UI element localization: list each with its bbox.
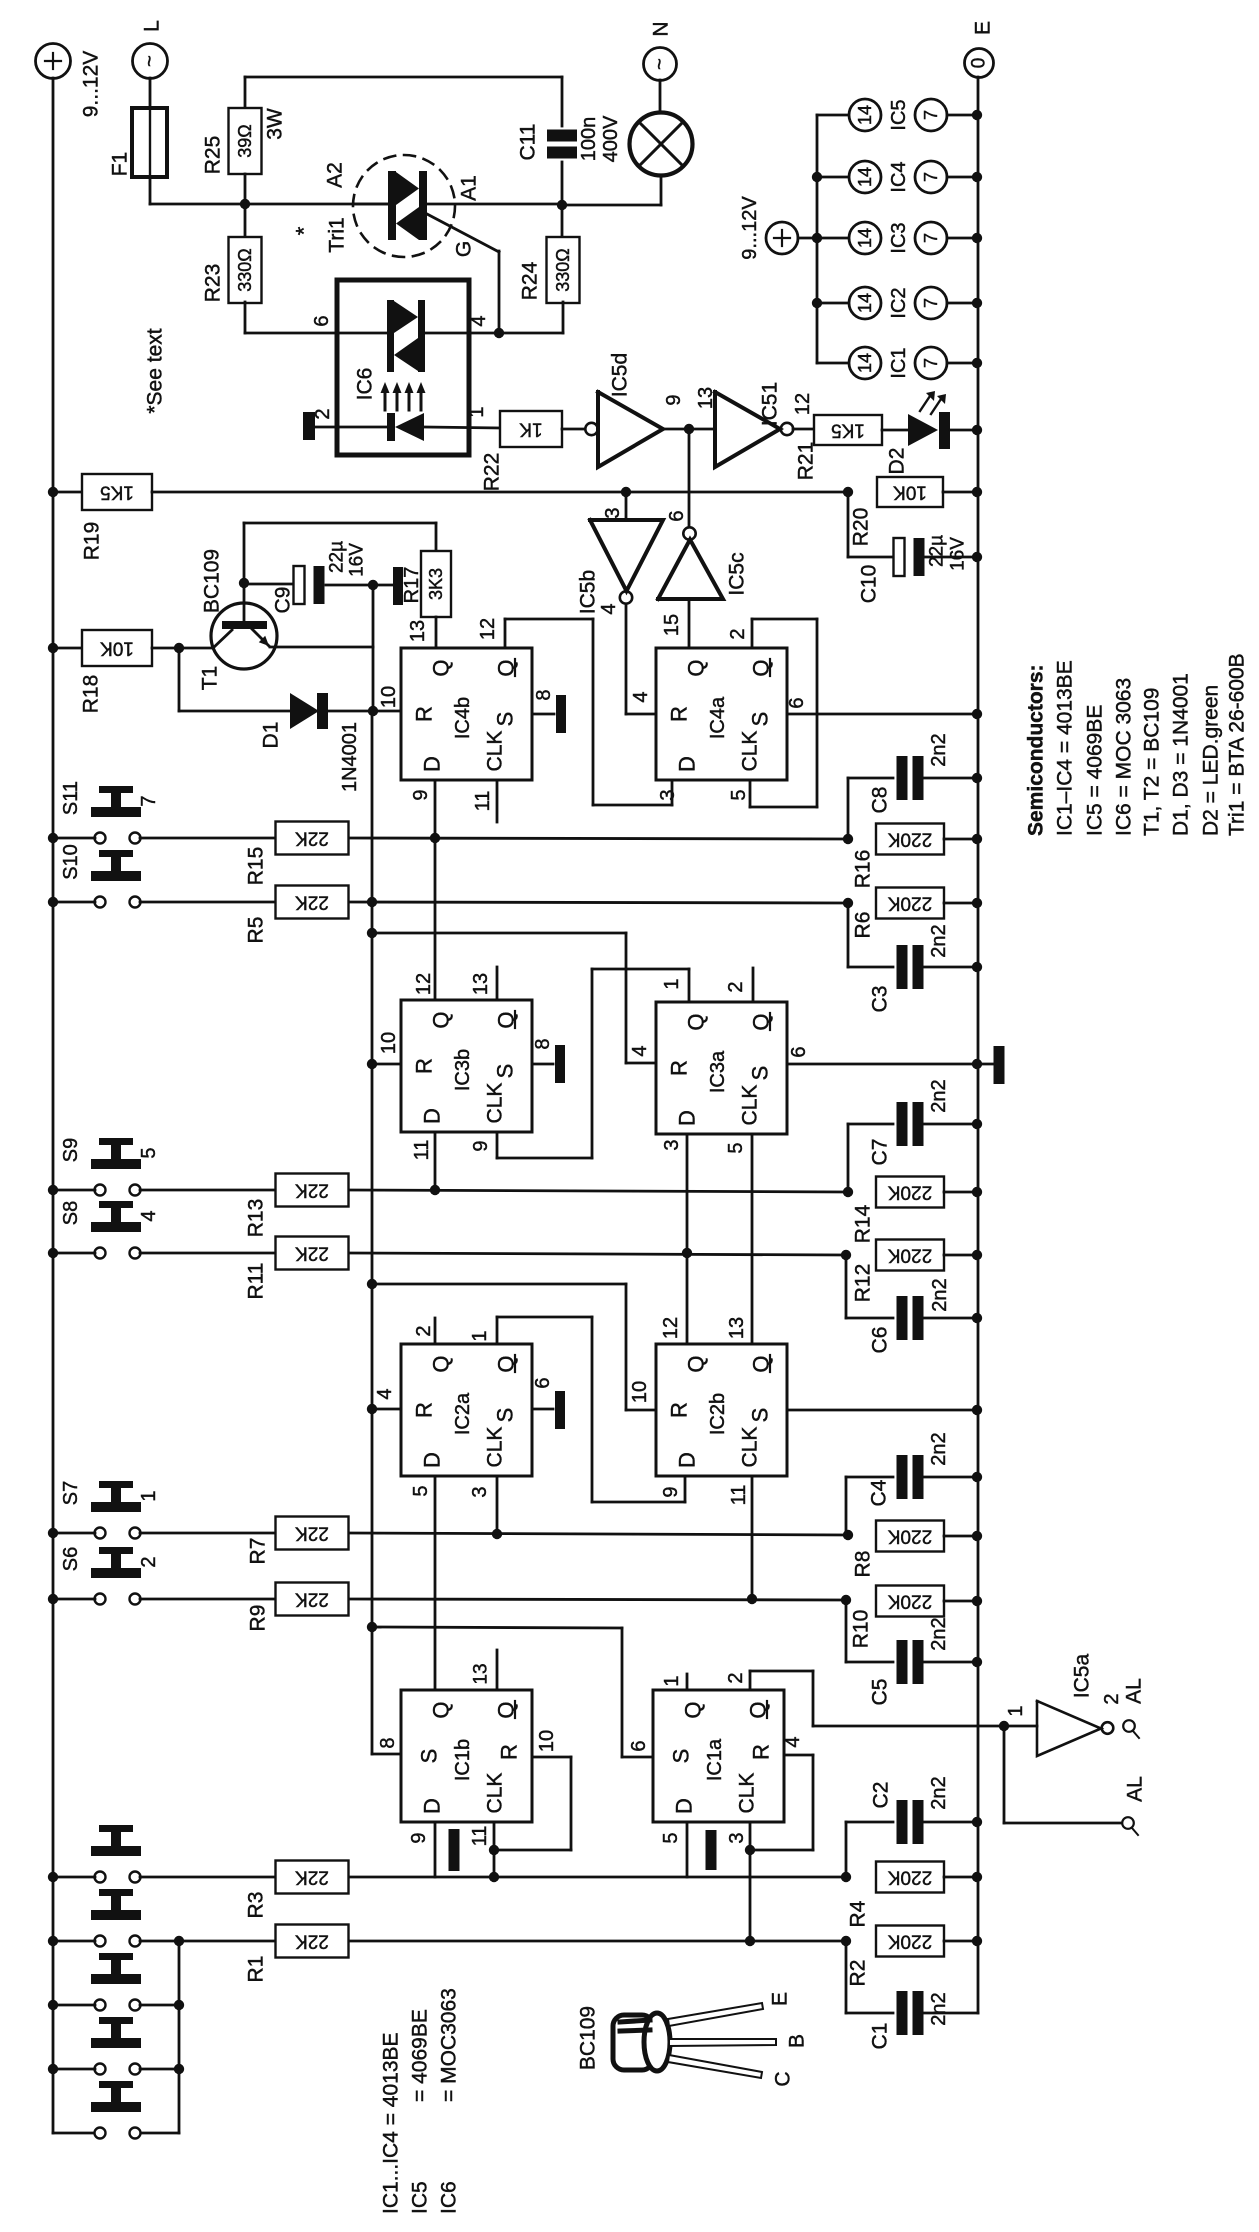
IC pins IC4 <box>817 176 849 179</box>
node T1 collector <box>239 578 249 588</box>
svg-text:5: 5 <box>660 1832 682 1843</box>
transistor T1 BC109 <box>211 603 277 669</box>
svg-text:R19: R19 <box>81 522 104 561</box>
flip-flop IC4a <box>656 648 787 780</box>
node D1/R <box>368 706 378 716</box>
svg-text:10: 10 <box>629 1381 651 1403</box>
svg-text:~: ~ <box>139 55 161 67</box>
flip-flop IC2a <box>401 1344 532 1476</box>
resistor R23 330ohm <box>244 204 247 237</box>
resistor R4 220K <box>876 1862 944 1893</box>
capacitor C3 2n2 <box>847 903 850 967</box>
svg-text:11: 11 <box>728 1485 750 1506</box>
push-button S4 <box>95 1936 106 1947</box>
svg-text:22K: 22K <box>295 1523 329 1544</box>
svg-text:R: R <box>667 706 692 722</box>
wire S10 to R5 <box>140 901 276 904</box>
svg-text:220K: 220K <box>887 829 932 850</box>
wire + rail left <box>52 78 55 2133</box>
node rail D2 <box>972 425 982 435</box>
BC109 package <box>613 2013 670 2071</box>
svg-text:R21: R21 <box>795 442 818 481</box>
svg-text:C11: C11 <box>517 124 540 161</box>
svg-text:22µ: 22µ <box>927 535 948 567</box>
svg-text:1: 1 <box>466 406 488 417</box>
svg-text:2: 2 <box>725 1672 747 1683</box>
svg-text:IC1...IC4 = 4013BE: IC1...IC4 = 4013BE <box>380 2032 403 2214</box>
node G <box>494 328 504 338</box>
svg-text:22K: 22K <box>295 1867 329 1888</box>
svg-text:8: 8 <box>532 1038 554 1049</box>
svg-text:1: 1 <box>1005 1705 1027 1716</box>
node S7 row <box>48 1528 58 1538</box>
node btn chain <box>174 1936 184 1946</box>
svg-text:IC1b: IC1b <box>452 1739 474 1781</box>
svg-text:R7: R7 <box>247 1538 270 1565</box>
svg-text:Q: Q <box>681 1701 706 1718</box>
wire IC4b D9 down <box>434 780 437 1000</box>
svg-text:CLK: CLK <box>739 731 762 772</box>
svg-text:5: 5 <box>728 789 750 800</box>
svg-text:14: 14 <box>855 293 875 313</box>
svg-text:D2: D2 <box>886 448 909 475</box>
flip-flop IC3b <box>401 1000 532 1132</box>
svg-text:R4: R4 <box>847 1900 870 1927</box>
svg-text:S: S <box>748 712 773 727</box>
svg-text:9: 9 <box>410 789 432 800</box>
svg-text:R8: R8 <box>852 1551 875 1578</box>
svg-text:IC4a: IC4a <box>707 696 729 739</box>
svg-text:7: 7 <box>921 110 941 120</box>
svg-text:22K: 22K <box>295 1931 329 1952</box>
svg-text:R6: R6 <box>852 912 875 939</box>
wire lamp to A1 node <box>660 176 663 205</box>
flip-flop IC3a <box>656 1002 787 1134</box>
resistor R7 22K <box>276 1517 349 1550</box>
node S9 row <box>48 1185 58 1195</box>
svg-text:S: S <box>493 1064 518 1079</box>
capacitor C6 2n2 <box>845 1255 848 1318</box>
node rail R4 <box>972 1872 982 1882</box>
node C9/emitter <box>368 580 378 590</box>
svg-text:Tri1: Tri1 <box>326 217 349 252</box>
triac Tri1 symbol <box>388 171 396 240</box>
svg-text:R: R <box>667 1402 692 1418</box>
IC6 photo-triac <box>387 300 394 372</box>
svg-text:D2 = LED.green: D2 = LED.green <box>1200 685 1223 836</box>
wire S5 to R3 <box>140 1876 276 1879</box>
svg-text:IC2: IC2 <box>888 287 910 318</box>
node IC1b CLK/R <box>489 1845 499 1855</box>
wire IC2b S to rail <box>787 1409 977 1412</box>
svg-text:22K: 22K <box>295 1180 329 1201</box>
capacitor C4 2n2 <box>846 1476 893 1479</box>
svg-text:13: 13 <box>407 620 429 642</box>
svg-text:IC5a: IC5a <box>1071 1654 1094 1699</box>
ground at C9 <box>393 567 403 605</box>
svg-text:BC109: BC109 <box>577 2006 600 2070</box>
svg-text:220K: 220K <box>887 1867 932 1888</box>
svg-text:1K5: 1K5 <box>831 420 865 441</box>
svg-text:Q: Q <box>684 1355 709 1372</box>
svg-text:11: 11 <box>469 1826 491 1847</box>
wire R13 row <box>349 1190 848 1192</box>
svg-text:Semiconductors:: Semiconductors: <box>1025 664 1048 836</box>
svg-text:D1: D1 <box>260 722 283 749</box>
wire IC2a D5 to IC1b Q <box>434 1476 437 1690</box>
node R6/C3 <box>843 898 853 908</box>
node AL branch <box>999 1721 1009 1731</box>
svg-text:400V: 400V <box>600 115 622 162</box>
svg-text:AL: AL <box>1124 1776 1147 1802</box>
svg-text:220K: 220K <box>887 1526 932 1547</box>
svg-text:4: 4 <box>782 1736 804 1747</box>
svg-text:IC2a: IC2a <box>452 1392 474 1435</box>
svg-text:220K: 220K <box>887 1245 932 1266</box>
wire IC1b R10 loop to CLK <box>532 1756 571 1759</box>
resistor R9 22K <box>276 1583 349 1616</box>
terminal E / 0 <box>965 49 994 78</box>
svg-text:D: D <box>420 756 445 772</box>
svg-text:16V: 16V <box>948 537 969 571</box>
svg-text:4: 4 <box>629 1045 651 1056</box>
fuse F1 <box>132 108 167 177</box>
node rail R6 <box>972 898 982 908</box>
svg-text:R: R <box>412 1402 437 1418</box>
svg-text:3W: 3W <box>264 108 287 140</box>
resistor R17 3K3 <box>243 523 246 583</box>
svg-text:R11: R11 <box>245 1263 268 1300</box>
wire IC3b D11 <box>434 1132 437 1190</box>
reset line vertical <box>371 711 374 1754</box>
svg-text:220K: 220K <box>887 893 932 914</box>
svg-text:B: B <box>786 2034 809 2048</box>
node rail R8 <box>972 1531 982 1541</box>
LED D2 <box>882 429 908 432</box>
svg-text:6: 6 <box>532 1377 554 1388</box>
svg-text:= 4069BE: = 4069BE <box>409 2009 432 2102</box>
svg-text:S: S <box>748 1066 773 1081</box>
push-button S5 <box>95 1872 106 1883</box>
svg-text:22K: 22K <box>295 828 329 849</box>
wire R23 to IC6 pin6 <box>245 332 387 335</box>
wire to AL lower <box>1003 1726 1006 1823</box>
svg-text:220K: 220K <box>887 1931 932 1952</box>
svg-text:IC4: IC4 <box>888 161 910 192</box>
svg-text:R14: R14 <box>852 1204 875 1243</box>
node CLK11/R9row <box>747 1594 757 1604</box>
wire IC5b out to IC4a R <box>625 604 628 714</box>
wire IC2a R4 <box>372 1408 401 1411</box>
wire S8 to R11 <box>140 1252 276 1255</box>
svg-text:12: 12 <box>660 1317 682 1339</box>
svg-text:R1: R1 <box>245 1956 268 1983</box>
svg-text:CLK: CLK <box>484 1427 507 1468</box>
svg-text:~: ~ <box>649 58 671 70</box>
wire S6 to R9 <box>140 1598 276 1601</box>
svg-text:13: 13 <box>726 1317 748 1339</box>
svg-text:IC2b: IC2b <box>707 1393 729 1435</box>
push-button S10 <box>95 897 106 908</box>
svg-text:D: D <box>420 1108 445 1124</box>
svg-text:S11: S11 <box>60 781 82 815</box>
wire F1 to mains row <box>149 177 152 204</box>
svg-text:D: D <box>672 1798 697 1814</box>
svg-text:R: R <box>497 1744 522 1760</box>
resistor R22 1K <box>500 411 562 447</box>
terminal +9..12V (top-left) <box>36 44 71 79</box>
wire IC1b D9 <box>434 1822 437 1877</box>
node rail IC3a S <box>972 1059 982 1069</box>
node rail R20 <box>972 487 982 497</box>
wire L to F1 <box>149 78 152 108</box>
svg-text:R16: R16 <box>852 850 875 889</box>
node R8/C4 <box>843 1530 853 1540</box>
node S2 row <box>48 2064 58 2074</box>
node rail C7 <box>972 1119 982 1129</box>
svg-text:BC109: BC109 <box>201 549 224 613</box>
svg-text:2: 2 <box>1101 1693 1123 1704</box>
node rail R12 <box>972 1250 982 1260</box>
svg-text:IC1–IC4 = 4013BE: IC1–IC4 = 4013BE <box>1054 660 1077 836</box>
push-button S3 <box>95 2000 106 2011</box>
svg-text:22K: 22K <box>295 1589 329 1610</box>
node rail C8 <box>972 773 982 783</box>
svg-text:5: 5 <box>725 1142 747 1153</box>
svg-text:*: * <box>292 226 317 235</box>
node R10/C5 <box>841 1595 851 1605</box>
resistor R3 22K <box>276 1861 349 1894</box>
svg-text:9...12V: 9...12V <box>739 196 761 260</box>
svg-text:4: 4 <box>598 603 620 614</box>
svg-text:IC5 = 4069BE: IC5 = 4069BE <box>1084 705 1107 836</box>
resistor R13 22K <box>276 1174 349 1207</box>
svg-text:C4: C4 <box>868 1479 891 1506</box>
svg-text:R15: R15 <box>245 847 268 886</box>
stub IC1a Q1 <box>686 1674 689 1690</box>
svg-text:3K3: 3K3 <box>426 568 446 600</box>
node R18 tap <box>48 643 58 653</box>
svg-text:S: S <box>493 712 518 727</box>
node rail C2 <box>972 1817 982 1827</box>
wire IC4a Q2 loop to D5 <box>751 619 754 648</box>
svg-text:13: 13 <box>695 387 717 409</box>
svg-text:6: 6 <box>786 697 808 708</box>
svg-text:2: 2 <box>413 1325 435 1336</box>
terminal L <box>133 44 168 79</box>
node R19 tap <box>48 487 58 497</box>
svg-text:A1: A1 <box>458 175 481 201</box>
node R5/reset line <box>367 897 377 907</box>
wire 14-pin feeder rail <box>816 115 819 363</box>
svg-text:CLK: CLK <box>739 1427 762 1468</box>
svg-text:S: S <box>669 1749 694 1764</box>
svg-text:CLK: CLK <box>484 1773 507 1814</box>
resistor R16 220K <box>876 824 944 855</box>
svg-text:9: 9 <box>663 394 685 405</box>
svg-text:CLK: CLK <box>484 1083 507 1124</box>
wire S4 to R1 <box>140 1940 179 1943</box>
svg-text:Q: Q <box>429 1701 454 1718</box>
node D9/R15row <box>430 833 440 843</box>
resistor R1 22K <box>276 1925 349 1958</box>
wire IC3b R10 <box>372 1063 401 1066</box>
svg-text:11: 11 <box>411 1140 433 1161</box>
svg-text:C2: C2 <box>870 1782 893 1809</box>
svg-text:3: 3 <box>602 507 624 518</box>
svg-text:2n2: 2n2 <box>928 1079 950 1112</box>
svg-text:= MOC3063: = MOC3063 <box>438 1988 461 2102</box>
svg-text:C8: C8 <box>869 787 892 814</box>
svg-text:2n2: 2n2 <box>928 733 950 766</box>
svg-text:S9: S9 <box>60 1138 82 1162</box>
svg-text:R: R <box>667 1060 692 1076</box>
svg-text:C: C <box>772 2071 795 2086</box>
node CLK/R1row <box>745 1936 755 1946</box>
svg-text:2n2: 2n2 <box>928 1617 950 1650</box>
terminal AL lower <box>1122 1817 1134 1829</box>
capacitor C11 100n 400V <box>547 130 577 142</box>
wire IC1a Q2 to IC5a <box>749 1671 752 1690</box>
svg-text:Q: Q <box>684 659 709 676</box>
terminal N <box>644 48 677 81</box>
svg-text:1: 1 <box>138 1490 160 1501</box>
svg-text:R20: R20 <box>850 508 873 547</box>
svg-text:R12: R12 <box>852 1264 875 1303</box>
svg-text:C5: C5 <box>869 1679 892 1706</box>
resistor R12 220K <box>876 1240 944 1271</box>
node R4/C2 <box>841 1872 851 1882</box>
flip-flop IC1a <box>653 1690 784 1822</box>
node rail C6 <box>972 1313 982 1323</box>
svg-text:IC3b: IC3b <box>452 1049 474 1091</box>
node S8 row <box>48 1248 58 1258</box>
svg-text:IC1: IC1 <box>888 347 910 378</box>
svg-text:16V: 16V <box>347 543 368 577</box>
svg-text:D: D <box>420 1452 445 1468</box>
svg-text:11: 11 <box>472 791 494 812</box>
svg-text:9: 9 <box>470 1140 492 1151</box>
svg-text:3: 3 <box>661 1139 683 1150</box>
resistor R18 10K <box>53 647 82 650</box>
wire IC2a CLK3 <box>496 1476 499 1534</box>
svg-text:Q: Q <box>429 1011 454 1028</box>
svg-text:1K5: 1K5 <box>100 482 134 503</box>
svg-text:1: 1 <box>661 978 683 989</box>
wire IC1a D5 <box>686 1824 689 1877</box>
svg-text:IC5c: IC5c <box>726 552 749 595</box>
ground at IC2a S6 <box>532 1408 553 1411</box>
svg-text:Q: Q <box>684 1013 709 1030</box>
wire N to lamp <box>659 80 662 113</box>
capacitor C10 22u <box>847 492 850 557</box>
ground bar at IC1a D <box>706 1830 717 1870</box>
svg-text:IC3: IC3 <box>888 222 910 253</box>
svg-text:C1: C1 <box>869 2023 892 2050</box>
ground at IC4b S8 <box>532 713 554 716</box>
stub IC4b CLK11 <box>496 780 499 822</box>
wire IC4b Q12 to IC4a CLK <box>504 619 507 648</box>
wire R5 row <box>349 902 848 903</box>
svg-text:1N4001: 1N4001 <box>339 722 361 792</box>
node IC5d out <box>684 424 694 434</box>
svg-text:7: 7 <box>921 358 941 368</box>
svg-text:10: 10 <box>378 1032 400 1054</box>
inverter IC51 <box>715 392 780 467</box>
node S11 row <box>48 833 58 843</box>
svg-text:12: 12 <box>413 973 435 995</box>
terminal + 9..12V (IC supply) <box>766 222 798 254</box>
button chain vertical <box>178 1941 181 2133</box>
svg-text:14: 14 <box>855 105 875 125</box>
node R2/C1 <box>841 1936 851 1946</box>
node R20/C10 <box>843 487 853 497</box>
svg-text:R18: R18 <box>80 675 103 714</box>
inverter IC5b <box>620 591 632 603</box>
svg-text:14: 14 <box>855 353 875 373</box>
inverter IC5c <box>688 429 691 527</box>
resistor R10 220K <box>876 1586 944 1617</box>
lamp (load) <box>630 113 693 176</box>
svg-text:R: R <box>412 706 437 722</box>
svg-text:IC5: IC5 <box>409 2181 432 2214</box>
svg-text:3: 3 <box>469 1486 491 1497</box>
svg-text:F1: F1 <box>109 152 132 177</box>
push-button S8 <box>95 1248 106 1259</box>
node rail C3 <box>972 962 982 972</box>
svg-text:C7: C7 <box>869 1139 892 1166</box>
svg-text:5: 5 <box>410 1485 432 1496</box>
ground at IC6 pin2 <box>316 426 387 429</box>
capacitor C9 22u 16V <box>244 583 292 586</box>
push-button S7 <box>95 1528 106 1539</box>
wire IC3a D5 down (to IC2b Q13) <box>751 1134 754 1344</box>
svg-text:R5: R5 <box>245 917 268 944</box>
push-button S2 <box>95 2064 106 2075</box>
svg-text:S10: S10 <box>60 844 82 880</box>
IC pins IC2 <box>817 302 849 305</box>
node R25/R23 <box>240 199 250 209</box>
IC pins IC3 <box>817 237 849 240</box>
svg-text:S: S <box>748 1408 773 1423</box>
svg-text:13: 13 <box>471 1663 492 1684</box>
svg-text:0: 0 <box>969 58 990 69</box>
svg-text:R25: R25 <box>202 136 225 175</box>
resistor R20 10K <box>877 477 943 507</box>
svg-text:Tri1 = BTA 26-600B: Tri1 = BTA 26-600B <box>1226 653 1249 836</box>
svg-text:E: E <box>769 1992 792 2006</box>
svg-text:9: 9 <box>660 1486 682 1497</box>
node rail C5 <box>972 1657 982 1667</box>
wire R19 row <box>152 491 848 494</box>
svg-text:22K: 22K <box>295 1243 329 1264</box>
svg-text:R23: R23 <box>202 264 225 303</box>
stub IC2a Q2 <box>434 1318 437 1344</box>
wire IC3a CLK3 down <box>686 1134 689 1344</box>
svg-text:S7: S7 <box>60 1481 82 1505</box>
wire R9 row <box>349 1599 846 1600</box>
node CLK/R3row <box>489 1872 499 1882</box>
node D11/R13row <box>430 1185 440 1195</box>
svg-text:12: 12 <box>477 618 499 640</box>
flip-flop IC1b <box>401 1690 532 1822</box>
flip-flop IC2b <box>656 1344 787 1476</box>
svg-text:IC51: IC51 <box>759 382 782 426</box>
svg-text:S: S <box>417 1749 442 1764</box>
svg-text:CLK: CLK <box>739 1085 762 1126</box>
wire IC3b CLK9 <box>496 1132 499 1158</box>
svg-text:CLK: CLK <box>736 1773 759 1814</box>
